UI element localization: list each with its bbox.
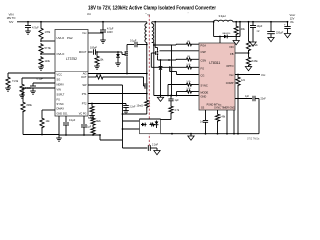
wire Q1 drain (146, 74, 148, 81)
wire bus under IC (59, 134, 100, 136)
svg-text:302k: 302k (96, 120, 102, 123)
svg-text:PGA: PGA (201, 44, 207, 48)
svg-text:100k: 100k (240, 28, 246, 31)
svg-text:UVLO: UVLO (57, 36, 65, 40)
svg-text:Vᴏᴜᴛ: Vᴏᴜᴛ (290, 13, 297, 17)
svg-text:LT8311: LT8311 (209, 61, 220, 65)
svg-text:1µF: 1µF (87, 126, 92, 129)
svg-text:NDRV: NDRV (57, 82, 65, 86)
wire aux gnd bus (100, 139, 122, 141)
capacitor C16 2.2nF (125, 104, 127, 106)
op-amp U2 LT8311 secondary controller box (199, 43, 235, 110)
svg-text:PGND INTVᴄᴄ: PGND INTVᴄᴄ (207, 104, 223, 106)
wire secondary gnd bus (153, 45, 155, 96)
capacitor C2 0.1uF (33, 82, 55, 84)
wire COMP (235, 98, 252, 100)
wire AG row (88, 73, 147, 75)
capacitor C7 100pF on MOUT (88, 51, 93, 53)
resistor R4 71.5k (7, 73, 9, 76)
wire OVLO tap (40, 53, 42, 55)
svg-text:0.1µF: 0.1µF (37, 78, 44, 81)
capacitor C18 1nF timer (205, 110, 207, 120)
svg-text:VC PG: VC PG (79, 113, 87, 116)
transistor Q4 forward FET (171, 63, 173, 66)
resistor R10 10k to gnd (96, 51, 98, 53)
svg-text:FB: FB (230, 52, 234, 56)
wire Q2 drain up (126, 45, 128, 49)
svg-text:2.49k: 2.49k (220, 117, 226, 119)
wire GND pin down (226, 110, 228, 134)
svg-text:Vᴄᴄ: Vᴄᴄ (82, 31, 87, 35)
svg-text:121: 121 (241, 79, 246, 82)
resistor R20 8.06k (246, 56, 250, 67)
resistor R1 178k divider top (40, 21, 42, 23)
svg-text:3.3µH: 3.3µH (219, 14, 226, 18)
capacitor C15 1uF (170, 101, 172, 105)
resistor R8 FS set (92, 116, 94, 117)
svg-text:OPTO: OPTO (226, 64, 233, 68)
resistor R2 57.6k divider mid (39, 43, 43, 54)
ground C6 (100, 39, 106, 41)
svg-text:4.7µF: 4.7µF (32, 26, 39, 30)
svg-text:Vᴄᴄ: Vᴄᴄ (229, 73, 234, 77)
svg-text:178k: 178k (45, 30, 51, 34)
svg-text:COMP: COMP (226, 81, 234, 85)
ground primary main (58, 135, 60, 138)
svg-text:OUT: OUT (81, 75, 87, 79)
resistor R9 (91, 126, 95, 135)
wire Q1 source (146, 92, 148, 99)
wire Y-cap (123, 147, 148, 149)
svg-text:18V to 72V, 120kHz Active Clam: 18V to 72V, 120kHz Active Clamp Isolated… (88, 5, 216, 11)
resistor R21 2.49k (217, 110, 219, 113)
svg-text:SSFLT: SSFLT (57, 92, 65, 96)
svg-text:MODE: MODE (201, 91, 209, 95)
svg-text:VIN: VIN (229, 45, 233, 49)
wire UVLO tap (40, 40, 42, 42)
svg-text:1µF: 1µF (175, 99, 180, 102)
svg-text:2.2nF: 2.2nF (152, 144, 159, 147)
wire VIN top rail (17, 21, 147, 23)
capacitor C14 comp 22nF (252, 96, 254, 102)
svg-text:VIN: VIN (57, 87, 61, 91)
svg-text:2Ω: 2Ω (97, 73, 100, 76)
capacitor C4 1uF (83, 116, 85, 124)
svg-text:57.6k: 57.6k (45, 46, 52, 50)
capacitor C3 soft-start (65, 116, 67, 122)
wire opto out (161, 119, 172, 121)
svg-text:Vᴄᴄ: Vᴄᴄ (261, 73, 266, 77)
transformer T1 primary lead down (146, 43, 148, 45)
svg-text:BAS516: BAS516 (223, 32, 231, 35)
resistor R7 10k (42, 109, 55, 111)
wire opto top edge (140, 118, 161, 120)
resistor R14 2ohm row2 (186, 58, 193, 61)
svg-text:3752 TA01a: 3752 TA01a (247, 138, 260, 141)
transformer T1 secondary winding (151, 22, 153, 24)
svg-text:18V TO: 18V TO (7, 16, 16, 20)
transistor Q3 catch FET (157, 48, 159, 49)
capacitor C12 470uF polarized (287, 21, 289, 23)
resistor R13 2ohm row1 (176, 43, 186, 45)
svg-text:SW: SW (82, 83, 87, 87)
ground secondary bus (160, 96, 162, 98)
inductor L1 3.3uH (214, 20, 233, 22)
wire pin row y78 (22, 77, 55, 79)
resistor R22 4.7k (170, 113, 172, 120)
resistor R24 121 (237, 74, 239, 76)
svg-text:LT3752: LT3752 (66, 57, 77, 61)
isolation barrier dashed line (148, 15, 150, 147)
wire row5 tie (176, 92, 178, 96)
op-amp U1 LT3752 primary controller box (55, 30, 88, 117)
svg-text:CSN: CSN (201, 59, 207, 63)
transistor Q1 main NMOS (146, 80, 148, 83)
svg-text:SYNC TIMER GND: SYNC TIMER GND (214, 107, 235, 110)
svg-text:GND SS1: GND SS1 (57, 113, 69, 116)
wire SS pin down (233, 110, 235, 134)
svg-text:0.1µF: 0.1µF (130, 40, 137, 43)
wire PT1 to opto (88, 84, 123, 86)
wire PMOS gate (118, 51, 122, 53)
wire loop to rail (239, 22, 241, 37)
svg-text:8.06k: 8.06k (252, 60, 259, 63)
resistor R15 1.2k row3 (151, 52, 155, 54)
ground R5 (21, 93, 23, 95)
wire SW row (160, 50, 200, 52)
wire SW kelvin (88, 93, 147, 95)
wire IVCC (88, 32, 103, 34)
svg-text:SYNC: SYNC (201, 84, 208, 88)
resistor R23 590ohm (91, 103, 93, 105)
transistor Q2 clamp PMOS (126, 48, 128, 51)
resistor R5 2.15k (21, 78, 23, 83)
svg-text:VCC: VCC (57, 72, 63, 76)
svg-text:220µF: 220µF (276, 32, 284, 35)
optocoupler output diode (156, 121, 158, 122)
optocoupler U3 box (140, 119, 161, 134)
resistor R18 PGOOD pullup (235, 21, 237, 23)
svg-text:MOUT: MOUT (79, 50, 87, 54)
wire opto return (123, 128, 140, 130)
svg-text:10mΩ: 10mΩ (137, 105, 144, 108)
capacitor C6 4.7uF 100V (102, 21, 104, 23)
svg-text:41.2k: 41.2k (252, 44, 259, 47)
svg-text:FG: FG (201, 67, 205, 71)
optocoupler resistor (150, 123, 156, 126)
svg-text:OVLO: OVLO (57, 52, 66, 56)
ground Y-cap secondary (156, 148, 158, 151)
wire sense return (146, 107, 148, 114)
wire drain sense (160, 59, 162, 61)
capacitor C11 220uF polarized (270, 21, 272, 23)
svg-text:SYNC: SYNC (57, 102, 64, 106)
wire bottom bus (161, 133, 260, 135)
wire GND pin down (58, 116, 60, 135)
svg-text:1nF: 1nF (200, 122, 205, 124)
svg-text:110k: 110k (45, 59, 51, 63)
svg-text:8A: 8A (290, 20, 293, 24)
transformer T1 primary winding (146, 22, 148, 24)
ground secondary (190, 133, 192, 135)
svg-text:71.5k: 71.5k (12, 80, 19, 83)
svg-text:12V: 12V (290, 16, 295, 20)
diode D2 body (159, 67, 163, 70)
svg-text:FS: FS (57, 97, 61, 101)
svg-text:PG2: PG2 (67, 36, 73, 40)
svg-text:PT1: PT1 (82, 92, 87, 96)
optocoupler LED (141, 124, 142, 126)
wire VIN pin up (219, 36, 221, 38)
svg-text:CG: CG (201, 74, 205, 78)
ground CIN (25, 30, 31, 32)
svg-text:590Ω: 590Ω (88, 118, 94, 120)
wire FG row (170, 71, 177, 73)
capacitor C8 clamp 0.1uF (134, 42, 136, 48)
svg-text:806k: 806k (27, 104, 33, 107)
ground FB divider (245, 67, 251, 71)
wire pin row y73 (8, 72, 55, 74)
svg-text:AG: AG (83, 72, 87, 76)
wire Q2 source down (126, 59, 128, 74)
resistor R3 110k divider bottom (39, 56, 43, 67)
svg-text:100pF: 100pF (90, 47, 98, 50)
svg-text:VIN: VIN (8, 13, 13, 17)
wire Q4 source (171, 75, 173, 96)
wire bus end (99, 135, 101, 140)
wire forward leg (154, 44, 172, 46)
resistor R6 806k (23, 87, 55, 89)
svg-text:2.2nF: 2.2nF (130, 107, 136, 109)
ground divider (40, 66, 42, 68)
wire catch leg (154, 21, 156, 23)
transformer T1 secondary lead down (152, 42, 154, 44)
svg-text:SG: SG (57, 77, 61, 81)
resistor R17 1.2k row5 (177, 91, 186, 93)
capacitor CIN 4.7uF (27, 21, 29, 23)
svg-text:22nF: 22nF (261, 99, 267, 101)
ground R18 (233, 41, 239, 45)
svg-text:10µF: 10µF (257, 25, 263, 28)
wire Q3 source (157, 58, 159, 61)
resistor R16 1.2k row4 (168, 84, 186, 86)
svg-text:*: * (188, 13, 189, 15)
svg-text:2Ω: 2Ω (187, 56, 190, 58)
svg-text:SS: SS (201, 107, 205, 110)
svg-text:4.7k: 4.7k (175, 109, 180, 112)
svg-text:2Ω: 2Ω (187, 41, 190, 43)
diode D3 catch BAS516 (224, 35, 227, 39)
capacitor C17 Y-cap 2.2nF (147, 145, 149, 151)
svg-text:72V: 72V (9, 20, 14, 24)
svg-text:100V: 100V (107, 31, 113, 34)
ground R4 (7, 86, 9, 88)
diode D1 gate clamp (117, 51, 119, 53)
svg-text:0.1µF: 0.1µF (69, 119, 76, 122)
capacitor C9 sense (167, 85, 169, 96)
resistor R19 41.2k (248, 21, 250, 23)
wire bottom-left bus (22, 111, 24, 135)
resistor R11 gate 2ohm (88, 76, 95, 78)
wire output rail (233, 21, 288, 23)
svg-text:DMAX: DMAX (57, 107, 65, 111)
resistor R12 sense 0.015ohm (145, 99, 149, 108)
wire to Q1 gate (143, 77, 145, 86)
svg-text:PT2: PT2 (82, 102, 87, 106)
capacitor C10 10uF x2 (252, 21, 254, 23)
wire PT2 row (88, 103, 126, 105)
wire secondary top rail (152, 21, 215, 23)
wire bias tap (213, 21, 215, 23)
svg-text:1µF: 1µF (245, 96, 250, 98)
wire VCC2 (235, 74, 260, 76)
svg-text:CSP: CSP (201, 50, 207, 54)
svg-text:GND: GND (201, 95, 207, 99)
